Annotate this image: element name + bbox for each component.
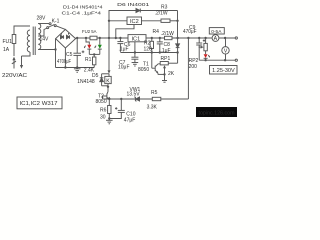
zener VW1 13.5V [134,97,139,101]
ammeter box 0-5A [209,28,224,35]
output minus rail [199,59,235,61]
svg-text:.1μF: .1μF [161,48,171,54]
junction C10 top [120,98,122,100]
junction LED on minus rail [204,59,206,61]
wire secondary mid tap to switch [38,28,47,36]
switch K-1 blade [49,25,55,27]
label FU2 5A [82,29,97,35]
junction C5 on ground rail [76,66,78,68]
regulator IC1 [128,35,146,43]
junction IC2 adj on rail [115,37,117,39]
svg-text:R5: R5 [151,90,158,96]
ground symbol under C5 [74,68,81,73]
svg-text:A: A [214,36,218,42]
transistor T1 8050 [152,64,158,75]
junction D7 tap [176,37,178,39]
junction FU2 left [85,37,87,39]
svg-text:IC2: IC2 [130,19,139,25]
junction C6 tap [119,37,121,39]
svg-text:FU2 5A: FU2 5A [82,29,97,35]
junction R6 C10 join [108,117,110,119]
label RP1 2K [161,56,175,77]
label VW1 13.5V [127,87,141,98]
watermark topinc.126.com [196,107,237,117]
wire top branch down [177,11,179,39]
ground symbol under R6 [106,119,113,124]
svg-text:K: K [106,78,110,84]
label C10 47uF [124,111,136,123]
switch K-1 common pole [54,25,56,27]
svg-text:3.3K: 3.3K [147,105,158,111]
potentiometer RP1 2K [158,62,177,65]
RP1 wiper arrow [163,65,166,74]
svg-text:4700μF: 4700μF [57,59,71,65]
svg-text:C10: C10 [126,111,135,117]
label FU1 1A [3,39,13,53]
fuse FU1 [12,35,16,44]
label R6 30 [100,108,107,121]
label C6 .1uF [119,42,131,53]
svg-text:.2/1W: .2/1W [161,31,174,37]
junction C5 tap [76,37,78,39]
wire bridge bottom to ground rail [64,48,66,68]
label box IC1,IC2 W317 [17,97,62,109]
wire AC live up to fuse [14,26,30,56]
svg-text:FU1: FU1 [3,39,13,45]
label T2 8050 [96,93,107,105]
potentiometer RP2 200 [204,38,207,54]
emitter line [103,98,189,100]
transformer T1 core [33,27,35,56]
svg-text:IC1: IC1 [132,36,141,42]
voltmeter V [222,38,229,60]
junction sense riser on rail [187,37,189,39]
wire primary bottom [22,52,31,56]
output terminal plus [235,37,237,39]
wire relay riser [108,38,111,74]
LED green indicator [95,38,102,54]
label R2 120 [144,41,153,53]
capacitor C10 47uF [109,99,125,119]
wire bridge left to ground rail [55,39,57,68]
label C8 .1uF [161,42,171,54]
wire IC2 adj [116,25,134,39]
diode D5 flyback [100,74,109,86]
C10 plus mark [115,107,117,109]
svg-text:R6: R6 [100,108,107,114]
RP2 wiper [199,46,204,49]
label 220V/AC [2,73,27,79]
ground symbol under C7 [132,63,139,67]
label T1 8050 [138,62,149,73]
wire LED join [89,53,100,55]
wire IC2 input [109,20,127,22]
adj line [120,52,177,54]
diode D7 [176,38,180,63]
junction FU2 right [99,37,101,39]
fuse FU2 [90,36,97,40]
resistor R5 3.3K [152,97,161,100]
label C5 4700uF [57,52,73,65]
capacitor C7 10uF [131,53,138,63]
wire sense riser [187,38,189,99]
capacitor C5 4700uF [73,38,81,68]
svg-text:RP2: RP2 [189,58,199,64]
label R4 .2/1W [153,29,175,37]
resistor R3 [161,19,178,22]
svg-text:D1-D4 IN5401*4: D1-D4 IN5401*4 [63,5,103,11]
junction IC2 input on riser [108,20,110,22]
resistor R1 [93,54,96,67]
svg-text:.2/1W: .2/1W [155,10,168,16]
label 28V [37,15,47,21]
svg-text:R1: R1 [85,57,92,63]
wire T1 emitter to wiper node [158,73,165,75]
svg-text:200: 200 [189,64,198,70]
bridge inner diodes [61,33,70,39]
transformer T1 primary winding [27,30,30,52]
regulator IC2 [127,17,142,25]
junction R6 top [108,98,110,100]
ground rail [56,67,95,69]
switch K-1 contact top [49,23,51,25]
junction secondary bottom [54,48,56,50]
LED red indicator [84,38,91,54]
AC terminal arrow up [12,57,16,69]
junction R2 on adj line [151,51,153,53]
junction D7 on adj line [176,51,178,53]
label RP2 200 [189,58,199,70]
junction R2 top [151,37,153,39]
transistor T2 8050 [103,87,111,99]
C9 plus mark [203,39,205,41]
junction riser on rail [108,37,110,39]
transformer T1 secondary winding [38,24,41,50]
svg-text:13.5V: 13.5V [127,92,141,98]
junction LED join [93,53,95,55]
svg-text:8050: 8050 [96,99,107,105]
svg-text:1A: 1A [3,47,10,53]
label C1-C4 .1uF*4 [62,10,102,16]
junction V tap [224,37,226,39]
label R1 2.4K [84,57,95,74]
junction C8 bottom [159,51,161,53]
svg-text:1.25-30V: 1.25-30V [212,68,235,74]
svg-text:470μF: 470μF [183,29,197,35]
svg-text:10μF: 10μF [118,65,130,71]
ammeter A [212,35,219,42]
main positive rail [76,37,236,39]
output terminal minus [235,59,237,61]
resistor R2 120 [150,38,153,68]
junction R3 out [176,20,178,22]
label C9 470uF [183,25,197,35]
relay coil K [105,74,111,86]
wire secondary top tap to switch [38,23,49,25]
AC terminal arrow down [20,56,23,69]
label D6 1N4001 [117,2,149,8]
wire secondary bottom [38,49,55,51]
svg-text:RP1: RP1 [161,56,171,62]
svg-text:C5: C5 [66,52,73,58]
svg-text:0-5A: 0-5A [211,29,222,35]
capacitor C9 470uF [196,38,202,60]
bridge rectifier D1-D4 diamond [56,29,76,48]
junction wiper node [163,73,165,75]
capacitor C8 .1uF [157,38,163,53]
ground bar under wiper node [162,74,167,82]
capacitor C6 .1uF [117,38,123,52]
label 14V [40,37,50,43]
svg-text:D6 IN4001: D6 IN4001 [117,2,149,8]
switch K-1 contact bottom [47,27,49,29]
svg-text:topinc.126.com: topinc.126.com [199,110,235,116]
label box 1.25-30V [210,66,238,75]
resistor R6 30 [108,99,111,119]
label R5 3.3K [147,90,158,110]
junction RP2 top [204,37,206,39]
label D1-D4 1N5401*4 [63,5,103,11]
svg-text:47μF: 47μF [124,118,136,124]
resistor R4 [165,36,173,39]
svg-text:30: 30 [100,115,106,121]
junction C9 top [198,37,200,39]
svg-text:14V: 14V [40,37,50,43]
C5 plus mark [82,51,85,54]
label C7 10uF [118,60,130,71]
wire switch to bridge top [56,26,65,30]
svg-text:8050: 8050 [138,67,149,73]
LED D8 output red [204,54,210,60]
wire top branch riser [109,11,136,39]
label R3 .2/1W [155,5,168,17]
junction V on minus rail [224,59,226,61]
svg-text:2K: 2K [168,71,175,77]
label K-1 [52,18,60,24]
svg-text:120: 120 [144,47,153,53]
svg-text:.1μF: .1μF [119,47,129,53]
svg-text:C8: C8 [164,42,171,48]
junction C8 top [159,37,161,39]
svg-text:R4: R4 [153,29,160,35]
svg-text:1N4148: 1N4148 [77,79,95,85]
svg-text:28V: 28V [37,15,47,21]
wire IC2 output [142,20,162,22]
wire IC1 adj [134,42,136,53]
label D5 1N4148 [77,73,98,85]
svg-text:IC1,IC2 W317: IC1,IC2 W317 [20,101,58,107]
svg-text:220V/AC: 220V/AC [2,73,27,79]
svg-text:K-1: K-1 [52,18,60,24]
junction T2 collector [107,86,109,88]
svg-text:C1-C4 .1μF*4: C1-C4 .1μF*4 [62,10,102,16]
junction bridge bottom on ground rail [64,66,66,68]
diode D6 [136,9,178,13]
junction IC1 adj [134,51,136,53]
svg-text:V: V [224,48,228,54]
